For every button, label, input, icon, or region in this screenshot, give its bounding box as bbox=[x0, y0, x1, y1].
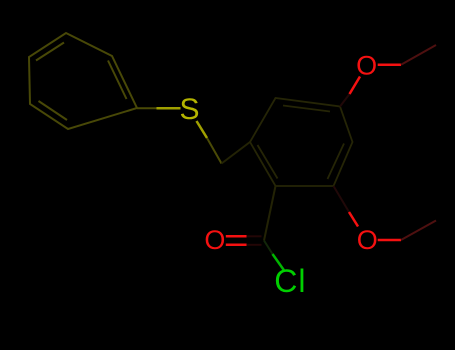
C=O double bond (red halves) bbox=[226, 235, 247, 238]
bond left ring to S (bright half) bbox=[157, 107, 181, 110]
left phenyl ring bbox=[29, 33, 137, 129]
bond S to CH2 (bright half) bbox=[197, 121, 208, 138]
bond CH2 to CH3 kink, top (dark) bbox=[401, 45, 436, 65]
bond S to CH2 (dark half) bbox=[207, 138, 222, 164]
C=O double bond (dark halves) bbox=[247, 235, 262, 237]
svg-text:O: O bbox=[357, 225, 378, 255]
bond C to Cl (green half) bbox=[273, 254, 284, 270]
bond left ring to S (dark half) bbox=[137, 107, 157, 109]
bond central ring to O bottom (red half) bbox=[349, 212, 358, 227]
bond CH2 to central ring bbox=[222, 142, 251, 164]
bond central ring to O bottom (dark half) bbox=[334, 186, 350, 212]
svg-text:O: O bbox=[356, 50, 377, 80]
bond O to CH2 of ethyl, bottom (red, horizontal) bbox=[378, 239, 401, 242]
svg-text:Cl: Cl bbox=[274, 263, 306, 299]
bond C to Cl (dark half) bbox=[264, 241, 273, 255]
central benzene ring bbox=[250, 98, 353, 186]
bond central ring to carbonyl C bbox=[264, 186, 276, 241]
svg-text:O: O bbox=[204, 225, 225, 255]
bond CH2 to CH3 kink, bottom (dark) bbox=[401, 221, 436, 241]
bond central ring to O top (red half) bbox=[350, 77, 361, 95]
bond O to CH2 of ethyl, top (red, horizontal) bbox=[378, 64, 401, 67]
bond central ring to O top (dark half) bbox=[340, 94, 350, 107]
